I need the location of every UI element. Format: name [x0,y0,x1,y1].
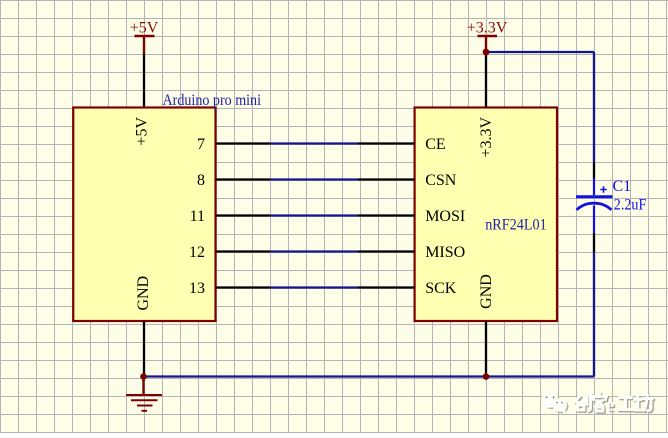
wire net CE [270,142,358,144]
wire net CSN [270,178,358,180]
svg-text:MOSI: MOSI [425,208,465,225]
pin number 12 [189,244,205,261]
pin number 7 [197,136,205,153]
pin name +5V (rotated) [133,117,150,146]
pin GND of U2 [485,321,487,377]
IC U2 nRF24L01 body [415,108,557,322]
pin GND of U1 [143,321,145,377]
junction node +3.3V rail [483,49,490,56]
pin 11 stub of U1 [216,214,271,216]
svg-text:13: 13 [189,280,205,297]
pin CSN stub of U2 [358,178,415,180]
svg-text:11: 11 [190,208,205,225]
pin MISO stub of U2 [358,250,415,252]
svg-text:12: 12 [189,244,205,261]
capacitor C1 [576,163,613,253]
wire bottom ground rail [144,375,594,377]
svg-text:e: e [606,395,614,416]
svg-text:7: 7 [197,136,205,153]
pin 7 stub of U1 [216,142,271,144]
pin +3.3V of U2 [485,52,487,108]
pin name GND of U1 (rotated) [135,276,152,311]
svg-text:8: 8 [197,172,205,189]
svg-text:+5V: +5V [133,117,150,146]
pin number 8 [197,172,205,189]
svg-text:+3.3V: +3.3V [467,20,508,37]
value 2.2uF [614,197,647,214]
pin number 13 [189,280,205,297]
junction node GND right [483,373,490,380]
svg-text:+3.3V: +3.3V [478,116,495,157]
wire net MISO [270,250,358,252]
pin name MOSI [425,208,465,225]
ground symbol [126,377,162,411]
wire right vertical to C1 top [593,52,595,163]
polarity plus mark of C1 [600,186,606,192]
pin number 11 [190,208,205,225]
svg-text:2.2uF: 2.2uF [614,197,647,214]
pin name SCK [425,280,457,297]
IC U1 Arduino pro mini body [73,108,215,322]
pin 8 stub of U1 [216,178,271,180]
svg-text:+5V: +5V [130,20,159,37]
svg-text:GND: GND [135,276,152,311]
pin +5V of U1 (Arduino) [143,54,145,108]
wire net SCK [270,286,358,288]
pin name CE [425,136,445,153]
wire +3.3V rail horizontal [486,51,594,53]
svg-text:nRF24L01: nRF24L01 [485,217,547,234]
watermark logo bubbles [541,392,568,414]
pin name CSN [425,172,457,189]
svg-text:MISO: MISO [425,244,465,261]
pin name MISO [425,244,465,261]
svg-text:GND: GND [478,274,495,309]
power symbol +3.3V [467,20,508,53]
label nRF24L01 [485,217,547,234]
watermark text 创客e工坊 [575,393,654,417]
pin CE stub of U2 [358,142,415,144]
pin SCK stub of U2 [358,286,415,288]
svg-text:C1: C1 [613,178,632,195]
junction node GND left [140,373,147,380]
label C1 [613,178,632,195]
pin name GND of U2 (rotated) [478,274,495,309]
pin 12 stub of U1 [216,250,271,252]
svg-text:CSN: CSN [425,172,457,189]
wire net MOSI [270,214,358,216]
svg-text:Arduino pro mini: Arduino pro mini [163,92,262,109]
pin name +3.3V (rotated) [478,116,495,157]
wire right vertical from C1 bottom to ground rail [593,252,595,377]
label Arduino pro mini [163,92,262,109]
pin MOSI stub of U2 [358,214,415,216]
power symbol +5V [130,20,159,54]
svg-text:SCK: SCK [425,280,457,297]
svg-text:CE: CE [425,136,445,153]
pin 13 stub of U1 [216,286,271,288]
